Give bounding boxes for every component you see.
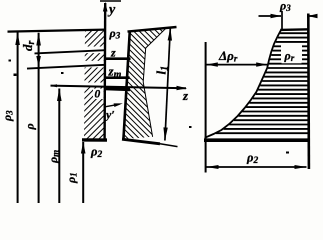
- node z_m line: [105, 76, 130, 79]
- pressure area hatch: [216, 33, 308, 133]
- pressure diagram baseline: [204, 138, 310, 142]
- tooth top edge: [128, 27, 177, 32]
- y axis: [103, 3, 106, 141]
- node 0 (origin): [93, 89, 104, 99]
- pressure diagram top edge: [280, 28, 309, 31]
- dimension rho3 column: [17, 33, 19, 204]
- tooth bottom edge: [122, 139, 160, 144]
- dimension rho1 column: [82, 142, 84, 203]
- nut cross-section block (left, hatched): [84, 30, 106, 140]
- dimension delta-rho_r arrow: [206, 64, 267, 66]
- wire: halo strips: [84, 47, 106, 54]
- label rho_r: [282, 46, 302, 64]
- svg-text:0: 0: [95, 89, 101, 101]
- svg-text:y′: y′: [104, 108, 115, 122]
- dimension rho_m column: [58, 89, 60, 204]
- gap y' arrow: [105, 104, 120, 107]
- dimension rho2 (bottom width): [207, 166, 307, 168]
- node rho_m level line B: [27, 65, 105, 69]
- pressure curve: [205, 30, 281, 138]
- dimension d_r column: [20, 41, 37, 52]
- nut block bottom edge: [82, 138, 107, 142]
- bolt thread tooth (right, hatched): [124, 28, 166, 139]
- dimension l1: [165, 28, 170, 141]
- svg-text:z: z: [110, 46, 116, 60]
- svg-text:y: y: [107, 3, 116, 18]
- pressure diagram left extension line: [205, 42, 207, 173]
- node rho3 level line (top edge): [8, 30, 106, 32]
- z axis: [51, 86, 187, 89]
- svg-text:z: z: [182, 88, 189, 103]
- node rho level line A: [35, 50, 106, 53]
- speck marks: [9, 60, 12, 62]
- dimension rho column: [38, 33, 40, 203]
- dimension rho3 (top width): [259, 15, 282, 17]
- node z line: [105, 57, 131, 60]
- pressure diagram right edge: [307, 14, 310, 170]
- svg-text:ρ: ρ: [23, 123, 37, 130]
